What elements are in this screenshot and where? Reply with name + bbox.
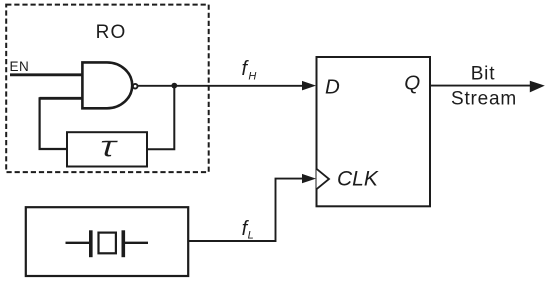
arrowhead into CLK — [302, 174, 316, 183]
wire crystal to CLK — [188, 179, 303, 241]
wire NAND lower input — [40, 97, 85, 100]
crystal oscillator box — [26, 207, 188, 276]
nand gate U1 body — [82, 62, 132, 108]
svg-text:Bit: Bit — [471, 63, 496, 84]
svg-text:CLK: CLK — [337, 167, 379, 190]
crystal symbol right lead — [125, 242, 148, 244]
wire EN input — [10, 73, 84, 76]
svg-text:D: D — [325, 76, 340, 99]
crystal symbol left lead — [66, 242, 90, 244]
wire junction down to tau box — [147, 86, 174, 150]
arrowhead bit stream — [530, 81, 545, 93]
svg-text:EN: EN — [10, 59, 30, 74]
arrowhead into D — [302, 81, 316, 91]
D flip-flop U2 box — [317, 57, 431, 206]
crystal symbol body square — [99, 233, 116, 254]
node junction on fH wire — [171, 83, 177, 89]
svg-text:Q: Q — [404, 71, 420, 94]
crystal symbol left plate — [89, 230, 93, 257]
wire NAND output to D — [138, 85, 303, 87]
wire feedback left (down and right to tau box) — [40, 97, 67, 149]
RO dashed enclosure — [6, 5, 209, 173]
svg-text:Stream: Stream — [451, 89, 517, 110]
crystal symbol right plate — [122, 230, 126, 257]
nand gate U1 output bubble — [133, 84, 138, 89]
clock input triangle — [317, 169, 330, 189]
svg-text:RO: RO — [96, 22, 127, 43]
delay element tau box — [67, 132, 147, 166]
wire Q output — [430, 85, 531, 87]
